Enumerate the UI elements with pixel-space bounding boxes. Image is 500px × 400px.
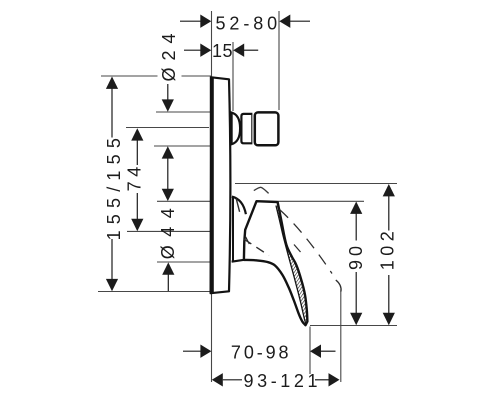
- svg-text:93-121: 93-121: [243, 371, 321, 391]
- svg-text:90: 90: [346, 242, 366, 270]
- svg-text:52-80: 52-80: [216, 13, 282, 33]
- svg-text:74: 74: [125, 162, 145, 191]
- svg-text:155/155: 155/155: [104, 132, 124, 240]
- svg-text:15: 15: [212, 41, 233, 61]
- svg-text:Ø44: Ø44: [158, 200, 178, 260]
- svg-text:70-98: 70-98: [231, 343, 292, 363]
- svg-text:102: 102: [378, 227, 398, 271]
- svg-text:Ø24: Ø24: [159, 26, 179, 81]
